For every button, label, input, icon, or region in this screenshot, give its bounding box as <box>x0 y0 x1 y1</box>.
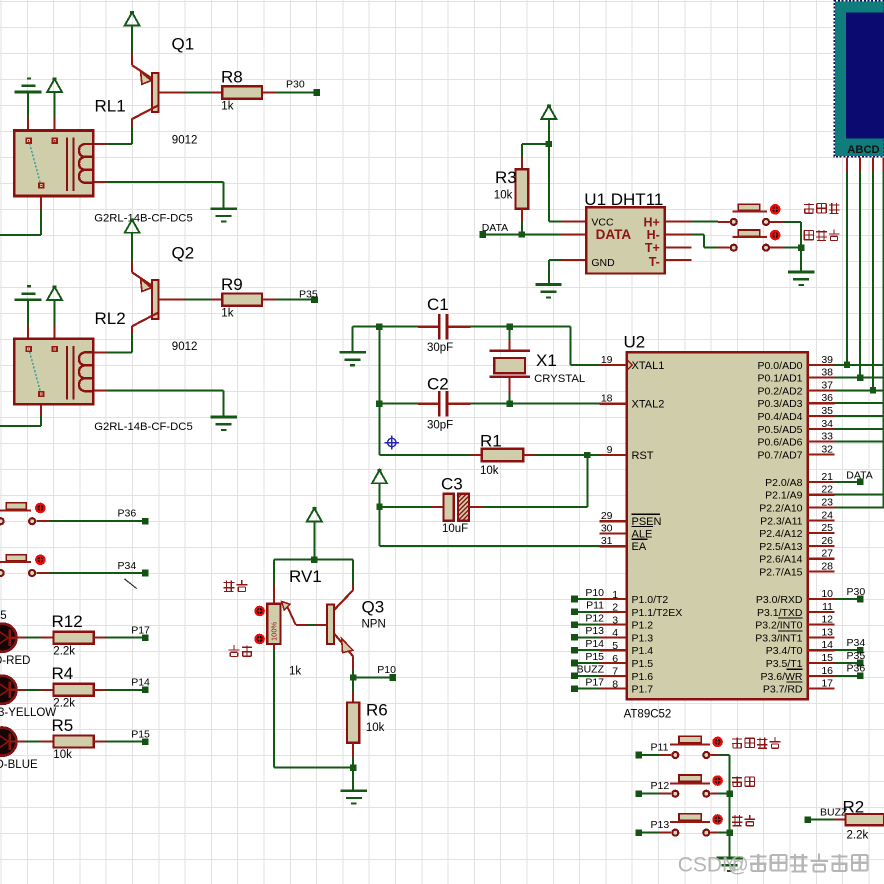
resistor R4 <box>41 684 106 696</box>
resistor R2 <box>835 814 884 825</box>
junction DATA-R3 <box>519 231 525 237</box>
wire LCD D1 down <box>859 171 861 377</box>
terminal P34 (U2 side) <box>857 647 864 654</box>
svg-text:22: 22 <box>821 484 833 496</box>
wire RV1 top rail <box>274 560 353 585</box>
svg-text:P11: P11 <box>586 600 604 612</box>
wire LED to R4 <box>16 689 40 691</box>
label 9012 (Q1) <box>172 135 198 147</box>
label DATA (U2 side) <box>846 470 872 482</box>
svg-text:@: @ <box>728 854 749 877</box>
relay RL1 pins <box>28 117 106 209</box>
terminal P17 <box>142 634 149 641</box>
svg-text:10k: 10k <box>53 749 72 761</box>
wire VCC rail to EA <box>380 507 600 546</box>
svg-text:8: 8 <box>612 678 618 690</box>
label 伸出 <box>732 776 754 787</box>
wire button to P36 terminal <box>49 520 142 522</box>
label C1 <box>427 295 449 314</box>
wire P13 to button <box>642 832 671 834</box>
svg-text:G2RL-14B-CF-DC5: G2RL-14B-CF-DC5 <box>94 213 193 225</box>
wire R4 to P14 <box>106 689 142 691</box>
svg-text:R8: R8 <box>221 68 243 87</box>
label U1 DHT11 <box>584 190 663 209</box>
svg-text:P1.1/T2EX: P1.1/T2EX <box>632 607 683 619</box>
ground (DHT11) <box>535 285 561 298</box>
ground (inverted) above RL1 <box>15 78 42 92</box>
svg-text:2: 2 <box>612 602 618 614</box>
svg-text:P2.4/A12: P2.4/A12 <box>759 528 802 540</box>
transistor Q2 (PNP 9012) <box>132 261 185 334</box>
label 30pF (C2) <box>427 420 453 432</box>
svg-text:P13: P13 <box>651 819 670 831</box>
svg-text:P3.6/WR: P3.6/WR <box>760 671 802 683</box>
svg-text:P11: P11 <box>651 741 669 753</box>
svg-text:P30: P30 <box>847 586 866 598</box>
terminal P15 <box>142 738 149 745</box>
button humidity-up <box>718 204 784 225</box>
wire VCC rail DHT11 <box>522 119 562 222</box>
wire RL2 switch to left edge <box>0 415 41 425</box>
svg-text:21: 21 <box>821 471 833 483</box>
power flag VCC (reset) <box>372 469 387 483</box>
svg-text:P2.6/A14: P2.6/A14 <box>759 554 802 566</box>
svg-text:C3: C3 <box>441 475 463 494</box>
LCD module LM016L <box>834 1 884 157</box>
svg-text:5: 5 <box>612 640 618 652</box>
marker RV1 bottom <box>254 634 265 645</box>
svg-text:38: 38 <box>821 367 833 379</box>
label G2RL-14B-CF-DC5 (RL1) <box>94 213 193 225</box>
junction VCC node <box>546 141 552 147</box>
svg-text:P1.7: P1.7 <box>632 684 654 696</box>
wire P0.0 row <box>835 364 884 366</box>
terminal P36 (U2 side) <box>857 673 864 680</box>
svg-text:1k: 1k <box>289 666 301 678</box>
wire P0.1 row <box>835 377 884 379</box>
svg-text:12: 12 <box>821 614 833 626</box>
svg-text:P12: P12 <box>585 612 604 624</box>
svg-text:RST: RST <box>632 450 654 462</box>
wire ground to RL2 pin <box>27 300 29 326</box>
button humidity-down <box>718 230 784 251</box>
svg-text:28: 28 <box>821 561 833 573</box>
wire LED to R5 <box>16 741 40 743</box>
wire RST to C3 <box>483 455 588 507</box>
svg-text:P36: P36 <box>118 507 137 519</box>
wire P2.1 row <box>835 494 884 496</box>
junction LCD D2 <box>870 387 876 393</box>
label D-RED <box>0 655 30 667</box>
terminal P11 <box>636 752 643 759</box>
label 夜晚 <box>229 645 253 656</box>
svg-text:P3.3/INT1: P3.3/INT1 <box>755 632 802 644</box>
svg-text:R1: R1 <box>480 432 502 451</box>
power flag VCC (DHT11) <box>541 104 556 118</box>
wire node to ground <box>352 768 354 791</box>
U2 P3 port pins 10-17 <box>755 588 834 696</box>
svg-text:13: 13 <box>821 626 833 638</box>
svg-text:39: 39 <box>821 354 833 366</box>
svg-text:P12: P12 <box>651 780 670 792</box>
svg-text:P2.5/A13: P2.5/A13 <box>759 541 802 553</box>
label RL1 <box>95 97 126 116</box>
svg-text:10: 10 <box>821 588 833 600</box>
wire RV1 bottom rail <box>274 650 353 768</box>
svg-text:CRYSTAL: CRYSTAL <box>534 373 585 385</box>
svg-text:R6: R6 <box>366 701 388 720</box>
label 2.2k (R2) <box>847 829 869 841</box>
svg-text:P3.2/INT0: P3.2/INT0 <box>755 620 802 632</box>
label G2RL-14B-CF-DC5 (RL2) <box>94 421 193 433</box>
label P34 (U2 side) <box>847 637 866 649</box>
svg-text:P0.7/AD7: P0.7/AD7 <box>758 449 803 461</box>
label 1k (R8) <box>221 101 233 113</box>
label R4 <box>52 664 74 683</box>
svg-text:11: 11 <box>822 601 833 613</box>
label 10k (R1) <box>480 465 499 477</box>
label P11 <box>651 741 669 753</box>
label R12 <box>52 612 83 631</box>
svg-text:R2: R2 <box>843 798 865 817</box>
label 2.2k (R4) <box>53 697 75 709</box>
svg-text:P0.6/AD6: P0.6/AD6 <box>758 437 803 449</box>
junction LCD D1 <box>857 374 863 380</box>
label P35 terminal <box>299 289 318 301</box>
wire P2.2 row <box>835 507 884 509</box>
wire VCC to RV1 top <box>313 521 315 559</box>
svg-text:16: 16 <box>821 665 833 677</box>
svg-text:X1: X1 <box>536 351 557 370</box>
terminal P13 <box>636 829 643 836</box>
ground (oscillator) <box>339 352 365 365</box>
svg-text:P34: P34 <box>847 637 866 649</box>
power flag above RL2 <box>47 286 62 300</box>
svg-text:P2.3/A11: P2.3/A11 <box>760 515 803 527</box>
wire H+ to button <box>692 221 719 223</box>
terminal DATA (U2 side) <box>857 479 864 486</box>
resistor R8 <box>211 86 275 98</box>
svg-text:XTAL2: XTAL2 <box>632 399 665 411</box>
svg-text:3-YELLOW: 3-YELLOW <box>0 707 56 719</box>
wire Q1 base to R8 <box>185 92 212 94</box>
svg-text:P1.5: P1.5 <box>632 658 654 670</box>
junction rail P12 <box>726 791 732 797</box>
label Q3 <box>362 598 385 617</box>
svg-text:18: 18 <box>601 393 613 405</box>
wire LCD D3 down (edge) <box>882 171 884 507</box>
svg-text:R3: R3 <box>495 168 517 187</box>
label 1k (R9) <box>221 308 233 320</box>
wire Q3 emitter to P10 node <box>352 669 354 678</box>
wire buttons to ground <box>784 222 801 272</box>
capacitor C3 10uF (electrolytic) <box>382 494 483 521</box>
svg-text:32: 32 <box>821 443 833 455</box>
terminal P36 (button) <box>142 518 149 525</box>
svg-text:30: 30 <box>601 522 613 534</box>
watermark CSDN <box>678 853 868 876</box>
button 伸出 <box>670 775 723 797</box>
terminal P35 (Q2 side) <box>311 296 318 303</box>
label P13 <box>651 819 670 831</box>
svg-text:ABCD: ABCD <box>847 144 879 156</box>
capacitor C2 30pF <box>379 391 470 417</box>
label RV1 <box>289 567 322 586</box>
button P36 (left edge) <box>0 503 49 525</box>
wire R12 to P17 <box>106 637 142 639</box>
svg-text:1: 1 <box>612 589 618 601</box>
svg-text:P14: P14 <box>131 677 150 689</box>
wire DHT11 GND <box>549 260 562 284</box>
resistor R6 <box>347 691 359 757</box>
transistor Q1 (PNP 9012) <box>132 54 185 127</box>
wire button P13 to rail <box>718 832 730 834</box>
label P35 (U2 side) <box>847 650 866 662</box>
svg-text:29: 29 <box>601 510 613 522</box>
svg-text:P13: P13 <box>585 625 604 637</box>
wire P0.4 row <box>835 415 884 417</box>
ground (inverted) above RL2 <box>15 286 42 300</box>
label 3-YELLOW <box>0 707 56 719</box>
svg-text:C1: C1 <box>427 295 449 314</box>
svg-text:5: 5 <box>0 610 6 622</box>
svg-text:P2.7/A15: P2.7/A15 <box>759 567 802 579</box>
svg-text:10k: 10k <box>480 465 499 477</box>
label R6 <box>366 701 388 720</box>
svg-text:34: 34 <box>821 418 833 430</box>
svg-text:NPN: NPN <box>362 618 386 630</box>
svg-text:C2: C2 <box>427 375 449 394</box>
label P34 (button) <box>118 560 137 572</box>
wire R8 to P30 <box>275 92 313 94</box>
wire LCD D2 down <box>872 171 874 390</box>
junction RV1 top <box>311 556 317 562</box>
label Q2 <box>172 244 195 263</box>
svg-text:23: 23 <box>821 497 833 509</box>
svg-text:P3.1/TXD: P3.1/TXD <box>757 607 803 619</box>
terminal BUZZ <box>804 816 811 823</box>
svg-text:AT89C52: AT89C52 <box>624 708 672 720</box>
svg-text:37: 37 <box>821 379 833 391</box>
transistor Q3 (NPN) <box>327 585 353 669</box>
wire P12 to button <box>642 793 671 795</box>
wire power to RL2 pin <box>54 300 56 326</box>
wire C1 rail left <box>353 327 419 353</box>
svg-text:P1.2: P1.2 <box>632 620 654 632</box>
svg-text:14: 14 <box>821 639 833 651</box>
label Q1 <box>172 35 195 54</box>
terminal P34 (button) <box>142 570 149 577</box>
label 10k (R5) <box>53 749 72 761</box>
wire R9 to P35 <box>275 299 311 301</box>
label DATA terminal <box>482 222 508 234</box>
terminal P30 (Q1 side) <box>313 89 320 96</box>
relay RL1 (G2RL-14B-CF-DC5) <box>14 131 93 197</box>
capacitor C1 30pF <box>418 314 471 340</box>
svg-text:33: 33 <box>821 431 833 443</box>
svg-text:10k: 10k <box>494 189 513 201</box>
svg-text:26: 26 <box>821 535 833 547</box>
wire RV1 wiper to Q3 <box>307 624 327 626</box>
wire button P11 to rail <box>718 754 730 756</box>
svg-text:P15: P15 <box>585 651 604 663</box>
svg-text:10k: 10k <box>366 722 385 734</box>
wire RL2 coil to ground <box>106 391 223 417</box>
wire node to R6 <box>352 678 354 692</box>
svg-text:25: 25 <box>821 522 833 534</box>
junction rail P13 <box>726 829 732 835</box>
wire RL1 switch to left edge <box>0 209 41 235</box>
svg-text:P3.4/T0: P3.4/T0 <box>766 645 803 657</box>
wire rail C2-R1 <box>379 404 470 455</box>
wire Q2 base to R9 <box>185 299 212 301</box>
svg-text:P0.3/AD3: P0.3/AD3 <box>758 398 803 410</box>
wire P2.0 to DATA terminal <box>835 481 857 483</box>
wire power to RL1 pin <box>54 92 56 117</box>
svg-text:RL2: RL2 <box>95 309 126 328</box>
label C3 <box>441 475 463 494</box>
svg-text:U1 DHT11: U1 DHT11 <box>584 190 663 209</box>
ground (buttons P11-P13) <box>716 858 742 871</box>
svg-text:P3.0/RXD: P3.0/RXD <box>756 594 803 606</box>
wire C1 to XTAL1 <box>471 327 600 365</box>
relay RL2 (G2RL-14B-CF-DC5) <box>14 339 93 405</box>
junction C1-rail <box>376 324 382 330</box>
svg-text:3: 3 <box>612 614 618 626</box>
wire C2 to XTAL2 <box>471 403 600 405</box>
svg-text:9012: 9012 <box>172 341 198 353</box>
label 1k (RV1) <box>289 666 301 678</box>
wire P3.4 to P34 <box>835 649 857 651</box>
chip U1 DHT11 <box>560 207 691 273</box>
svg-text:RV1: RV1 <box>289 567 322 586</box>
label 30pF (C1) <box>427 342 453 354</box>
chip U2 AT89C52 body <box>627 352 808 699</box>
power flag VCC (Q1 emitter) <box>125 11 140 25</box>
junction P10 node <box>350 674 356 680</box>
svg-text:10uF: 10uF <box>442 523 468 535</box>
label C2 <box>427 375 449 394</box>
wire H- to button <box>692 235 719 248</box>
svg-text:P17: P17 <box>131 625 150 637</box>
svg-text:Q2: Q2 <box>172 244 195 263</box>
label 10k (R6) <box>366 722 385 734</box>
terminal P14 <box>142 687 149 694</box>
svg-text:P10: P10 <box>377 664 396 676</box>
svg-text:RL1: RL1 <box>95 97 126 116</box>
origin marker <box>385 435 399 449</box>
junction button ground rail <box>798 245 804 251</box>
svg-text:36: 36 <box>821 392 833 404</box>
svg-text:P1.3: P1.3 <box>632 632 654 644</box>
svg-text:XTAL1: XTAL1 <box>632 360 665 372</box>
wire Q1 collector to relay RL1 coil <box>106 127 132 145</box>
wire P3.5 to P35 <box>835 662 857 664</box>
marker RV1 top <box>254 606 265 617</box>
power flag above RL1 <box>47 78 62 92</box>
resistor R5 <box>41 736 106 748</box>
wire P3.6 to P36 <box>835 675 857 677</box>
ground (RL2 coil) <box>211 417 237 430</box>
U2 left pins XTAL1 XTAL2 RST PSEN ALE EA <box>600 354 665 553</box>
crystal X1 <box>489 327 530 404</box>
U2 XTAL1 clock mark <box>628 361 633 370</box>
wire LED to R12 <box>16 637 40 639</box>
svg-text:Q3: Q3 <box>362 598 385 617</box>
junction X1 top <box>507 324 513 330</box>
wire VCC to C3 <box>379 483 381 507</box>
label 白天 <box>223 580 247 591</box>
svg-text:P0.0/AD0: P0.0/AD0 <box>758 360 803 372</box>
stray mark <box>125 579 137 589</box>
svg-text:ALE: ALE <box>632 528 653 540</box>
svg-text:35: 35 <box>821 405 833 417</box>
svg-text:DATA: DATA <box>596 227 632 242</box>
wire VCC to Q2 emitter <box>131 233 133 262</box>
svg-text:P0.2/AD2: P0.2/AD2 <box>758 385 803 397</box>
svg-text:P35: P35 <box>299 289 318 301</box>
power flag VCC (RV1) <box>307 507 322 521</box>
svg-text:R9: R9 <box>221 275 243 294</box>
junction C2-rail <box>376 401 382 407</box>
label R8 <box>221 68 243 87</box>
wire buttons rail <box>729 755 731 858</box>
svg-text:P34: P34 <box>118 560 137 572</box>
svg-text:D-BLUE: D-BLUE <box>0 759 38 771</box>
button 模式切换 <box>670 736 723 758</box>
svg-text:2.2k: 2.2k <box>53 645 75 657</box>
label P17 <box>131 625 150 637</box>
wire R5 to P15 <box>106 741 142 743</box>
svg-text:BUZZ: BUZZ <box>577 664 605 676</box>
wire Q2 collector to relay RL2 coil <box>106 334 132 353</box>
svg-text:P30: P30 <box>286 79 305 91</box>
label 10k (R3) <box>494 189 513 201</box>
wire R3 to DATA rail <box>521 222 523 235</box>
label P12 <box>651 780 670 792</box>
resistor R12 <box>41 632 106 644</box>
svg-text:P0.5/AD5: P0.5/AD5 <box>758 424 803 436</box>
svg-text:P3.7/RD: P3.7/RD <box>763 684 803 696</box>
svg-text:T-: T- <box>649 255 660 269</box>
svg-text:P1.6: P1.6 <box>632 671 654 683</box>
label P36 (button) <box>118 507 137 519</box>
wire to P10 terminal <box>353 677 390 679</box>
wire BUZZ to R2 <box>811 819 835 821</box>
label P15 <box>131 728 150 740</box>
label R2 <box>843 798 865 817</box>
label R1 <box>480 432 502 451</box>
svg-text:G2RL-14B-CF-DC5: G2RL-14B-CF-DC5 <box>94 421 193 433</box>
label D5 <box>0 610 6 622</box>
wire VCC to Q1 emitter <box>131 26 133 55</box>
label R3 <box>495 168 517 187</box>
label 湿度加 <box>804 203 839 214</box>
wire ground to RL1 pin <box>27 92 29 117</box>
label X1 <box>536 351 557 370</box>
LED D-BLUE <box>0 728 16 756</box>
svg-text:P17: P17 <box>585 676 604 688</box>
button 收回 <box>670 814 723 836</box>
svg-text:7: 7 <box>612 666 618 678</box>
svg-text:19: 19 <box>601 354 613 366</box>
U2 P0 port pins 39-32 <box>758 354 835 462</box>
svg-text:P1.4: P1.4 <box>632 645 654 657</box>
svg-text:P0.1/AD1: P0.1/AD1 <box>758 373 803 385</box>
resistor R9 <box>211 294 275 306</box>
svg-text:GND: GND <box>591 257 615 269</box>
svg-text:R5: R5 <box>52 716 74 735</box>
